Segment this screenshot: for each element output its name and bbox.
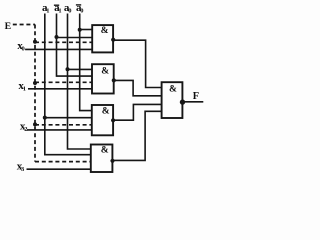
svg-text:a1: a1 (42, 2, 50, 15)
node label x3 (17, 161, 25, 174)
node label a1 (42, 2, 50, 15)
svg-text:&: & (101, 146, 109, 156)
node label F (193, 91, 199, 102)
svg-text:a0: a0 (64, 2, 72, 15)
wire a0 branch to U2 input1 (68, 68, 93, 70)
wire E dashed vertical (34, 25, 36, 162)
junction E to U3 (33, 122, 37, 126)
svg-text:&: & (101, 67, 109, 77)
svg-text:a0: a0 (76, 2, 84, 15)
node label a1-bar (54, 2, 62, 15)
wire a1 branch to U3 input2 (45, 117, 92, 119)
wire U2 output to U5 input 2 (114, 80, 162, 95)
wire x1 to U2 input4 (28, 88, 92, 90)
svg-text:a1: a1 (54, 2, 62, 15)
junction a0 to U2 (66, 67, 70, 71)
nand gate U1 (92, 25, 115, 52)
svg-text:&: & (101, 26, 109, 36)
wire E dashed branch to U1 input3 (35, 41, 92, 43)
wire E dashed branch to U2 input3 (35, 81, 92, 83)
node label x1 (18, 80, 26, 93)
junction a0-bar to U1 (78, 28, 82, 32)
node label x0 (17, 40, 25, 53)
wire x3 to U4 input4 (27, 168, 91, 170)
svg-text:x0: x0 (17, 40, 25, 53)
svg-text:x2: x2 (20, 121, 28, 134)
wire a1-bar branch to U1 input2 (57, 37, 93, 39)
wire F output (183, 101, 204, 103)
wire a0-bar vertical down to U3 input1 (80, 14, 92, 111)
wire E dashed branch to U3 input3 (35, 124, 92, 126)
svg-text:&: & (169, 85, 177, 95)
wire U4 output to U5 input 4 (113, 111, 162, 160)
junction a1-bar to U1 (55, 35, 59, 39)
wire a0-bar branch to U1 input1 (80, 29, 93, 31)
svg-text:F: F (193, 91, 199, 102)
nand gate U4 (91, 145, 115, 173)
wire a0 vertical down to U4 input1 (68, 14, 91, 150)
wire a1-bar vertical down to U2 input2 (57, 14, 93, 77)
svg-text:E: E (5, 21, 12, 32)
junction E to U1 (33, 40, 37, 44)
junction E to U2 (33, 81, 37, 85)
node label E (5, 21, 12, 32)
wire E dashed to U4 input3 (35, 161, 91, 163)
wire U3 output to U5 input 3 (113, 104, 162, 120)
wire x2 to U3 input4 (27, 129, 92, 131)
nand gate U3 (92, 105, 115, 135)
wire x0 to U1 input4 (25, 48, 92, 50)
svg-text:&: & (102, 107, 110, 117)
wire a1 vertical down to U4 input2 (45, 14, 91, 155)
node label a0 (64, 2, 72, 15)
nand gate U2 (92, 64, 116, 93)
node label a0-bar (76, 2, 84, 15)
junction a1 to U3 (43, 116, 47, 120)
svg-text:x1: x1 (18, 80, 26, 93)
wire U1 output to U5 input 1 (113, 40, 161, 87)
wire E dashed horizontal (13, 24, 35, 26)
node label x2 (20, 121, 28, 134)
nand gate U5 output (162, 82, 186, 118)
svg-text:x3: x3 (17, 161, 25, 174)
